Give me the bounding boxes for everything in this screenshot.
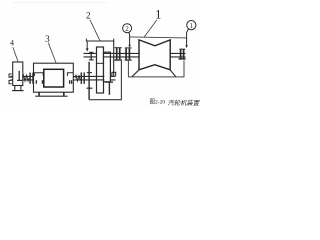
bearing cap inside box 3 right [67,73,73,76]
base line under box 4 [12,90,24,92]
bearing cap inside box 3 left [34,73,43,76]
component 3 outer box [34,63,74,92]
cap over lower shaft end [112,72,116,76]
internal joint line of gearbox [97,62,104,64]
svg-text:1: 1 [190,23,193,30]
base line under box 3 [35,95,67,97]
svg-text:2: 2 [86,11,91,21]
casing right wall [113,41,115,77]
bearing brackets at left shaft end [9,74,12,77]
turbine left support tail [132,70,139,77]
svg-text:1: 1 [155,8,161,22]
foundation frame under gearbox [89,61,121,100]
component 3 inner box [44,69,64,87]
leader for 4 [13,47,18,61]
coupling flange bars right of box 3 [80,72,82,84]
circled label 1 [185,21,196,49]
leader for 3 [48,43,56,63]
lower shaft through big wheel [95,76,104,80]
flexible coupling zigzag between 3 and gearbox [75,75,80,81]
turbine right support tail [170,70,176,77]
svg-text:2: 2 [125,26,129,33]
casing left drop with arrow [86,41,88,48]
foot of thrust bearing [17,79,22,81]
feet under box 4 [14,86,16,91]
coupling flange bars left of box 3 [29,73,31,84]
svg-text:汽轮机装置: 汽轮机装置 [168,99,200,107]
leader for 1 [144,20,157,37]
upper shaft through second wheel [103,53,111,57]
gearbox big wheel (left tall rect) [97,47,104,93]
svg-text:3: 3 [45,35,50,45]
feet under box 3 [38,92,40,96]
bearing feet inside box 3 right [69,80,71,84]
box 4 (thrust bearing unit) [13,62,23,86]
turbine bowtie (component 1) [139,40,170,70]
gearbox second wheel (right rect) [104,52,111,82]
coupling A flange pair on upper shaft [114,48,122,60]
right coupling flange pair [179,49,186,59]
bearing feet inside box 3 left [35,80,37,84]
upper shaft [84,53,186,57]
faint top rule [12,2,107,3]
thrust bearing bar in box 4 [18,71,20,80]
svg-text:4: 4 [10,39,14,48]
circled label 2 [123,24,132,48]
lower shaft [11,76,116,80]
overhead line from coupling 2 to coupling 1 [130,37,187,38]
gearbox casing top line [86,39,114,42]
pedestal bearing on lower shaft left of gearbox [87,62,93,100]
leader for 2 [90,20,100,41]
coupling B flange pair on upper shaft [125,48,132,60]
svg-text:图2-20: 图2-20 [150,98,166,106]
pedestal under right wheel [105,81,113,83]
bedplate under turbine set [128,60,184,77]
flexible coupling zigzag between 4 and 3 [23,75,29,81]
bearing on upper shaft left of gearbox [89,52,94,60]
